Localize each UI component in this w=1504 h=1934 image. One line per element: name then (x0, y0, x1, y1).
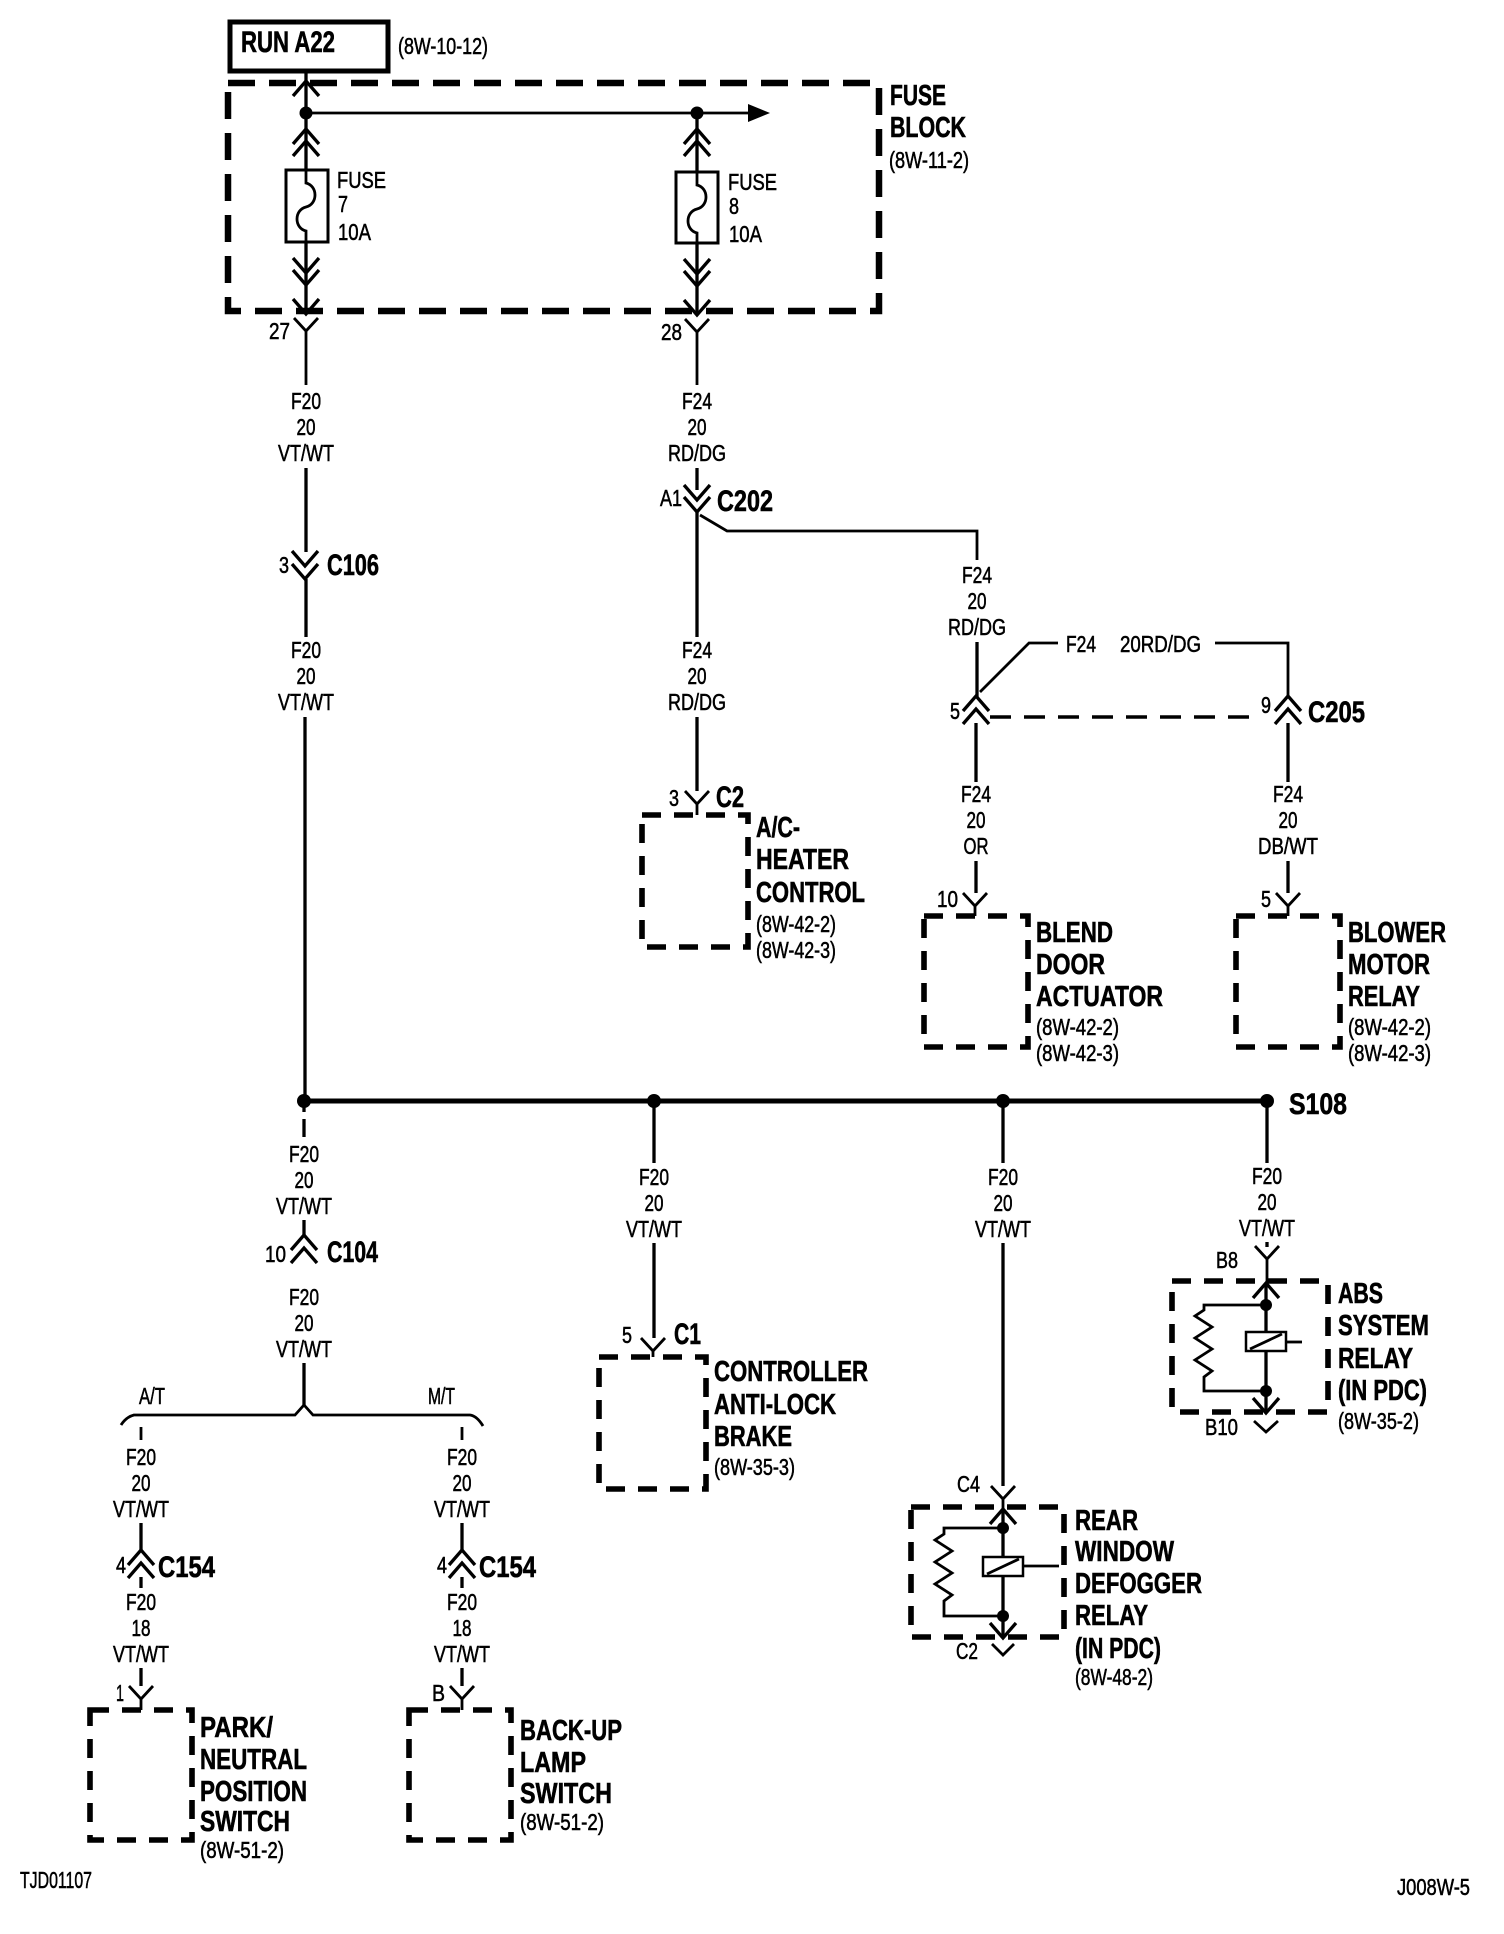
rear window defogger relay box (911, 1507, 1064, 1637)
svg-text:(8W-51-2): (8W-51-2) (520, 1809, 604, 1835)
wire label F20 20 VT/WT (1239, 1163, 1295, 1241)
svg-text:C205: C205 (1308, 696, 1365, 729)
chevron out of relay box (990, 1623, 1016, 1638)
relay coil of defogger relay (983, 1557, 1059, 1576)
svg-text:C2: C2 (716, 781, 744, 814)
svg-text:RELAY: RELAY (1338, 1343, 1413, 1375)
svg-text:F20: F20 (1252, 1163, 1282, 1189)
chevron at fuse block exit 28 (684, 300, 710, 315)
branch 3 wire (1001, 1101, 1004, 1163)
svg-text:CONTROL: CONTROL (756, 877, 865, 909)
wire (1001, 1576, 1004, 1637)
resistor of ABS relay (1195, 1305, 1266, 1391)
svg-text:F20: F20 (447, 1444, 477, 1470)
wire (1286, 861, 1289, 893)
svg-text:VT/WT: VT/WT (113, 1641, 169, 1667)
branch 2 wire (652, 1101, 655, 1163)
svg-text:C4: C4 (957, 1471, 980, 1497)
connector C205 pin 9 (1261, 692, 1365, 729)
wire (460, 1668, 463, 1686)
wire (302, 1220, 305, 1237)
wire label F20 20 VT/WT (626, 1164, 682, 1242)
wire (974, 861, 977, 893)
svg-text:TJD01107: TJD01107 (20, 1867, 92, 1893)
A/C-heater control box (642, 812, 865, 963)
wire down to splice bus (303, 717, 306, 1101)
label FUSE BLOCK (889, 80, 969, 173)
svg-text:C1: C1 (674, 1318, 701, 1351)
wire (975, 642, 978, 697)
A/T wire label F20 20 VT/WT (113, 1444, 169, 1522)
svg-text:20: 20 (453, 1470, 472, 1496)
svg-text:VT/WT: VT/WT (276, 1193, 332, 1219)
svg-text:BLEND: BLEND (1036, 917, 1113, 949)
svg-text:(8W-42-3): (8W-42-3) (1036, 1040, 1119, 1066)
svg-text:J008W-5: J008W-5 (1397, 1874, 1470, 1900)
svg-text:RD/DG: RD/DG (668, 440, 726, 466)
svg-text:VT/WT: VT/WT (434, 1496, 490, 1522)
svg-text:(8W-35-3): (8W-35-3) (714, 1454, 795, 1480)
svg-text:RELAY: RELAY (1075, 1600, 1148, 1632)
wire label F20 20 VT/WT (278, 388, 334, 466)
svg-text:20: 20 (295, 1167, 314, 1193)
pin C2 of defogger relay (956, 1638, 1014, 1664)
junction dot (997, 1522, 1009, 1534)
svg-text:VT/WT: VT/WT (434, 1641, 490, 1667)
svg-text:20: 20 (968, 588, 987, 614)
svg-text:F20: F20 (291, 388, 321, 414)
svg-text:VT/WT: VT/WT (276, 1336, 332, 1362)
svg-text:C154: C154 (479, 1551, 536, 1584)
svg-text:F20: F20 (639, 1164, 669, 1190)
svg-text:9: 9 (1261, 692, 1271, 718)
ABS system relay box (1172, 1281, 1328, 1412)
wire label F20 20 VT/WT (278, 637, 334, 715)
svg-text:C106: C106 (327, 549, 379, 582)
svg-text:VT/WT: VT/WT (278, 440, 334, 466)
svg-text:5: 5 (950, 698, 960, 724)
C205 interface dashed (990, 715, 1253, 719)
wire label F24 20 RD/DG (branch) (948, 562, 1006, 640)
wire below fuse 8 (695, 243, 698, 313)
connector C154 pin 4 (A/T) (116, 1550, 215, 1584)
svg-text:20: 20 (297, 663, 316, 689)
svg-text:10A: 10A (729, 221, 763, 247)
wire label F24 20 DB/WT (1258, 781, 1318, 859)
svg-text:5: 5 (622, 1322, 632, 1348)
svg-text:(IN PDC): (IN PDC) (1338, 1375, 1427, 1407)
svg-text:20: 20 (688, 663, 707, 689)
svg-text:F24: F24 (682, 388, 712, 414)
svg-text:HEATER: HEATER (756, 844, 849, 876)
svg-text:FUSE: FUSE (728, 169, 777, 195)
svg-text:(8W-51-2): (8W-51-2) (200, 1837, 284, 1863)
chevron into ABS box (1253, 1283, 1279, 1298)
svg-text:VT/WT: VT/WT (278, 689, 334, 715)
connector chevrons below fuse 8 (684, 259, 710, 274)
connector chevrons above fuse 7 (293, 129, 319, 144)
junction dot (1260, 1299, 1272, 1311)
svg-text:ACTUATOR: ACTUATOR (1036, 981, 1163, 1013)
pin 28 (661, 319, 709, 385)
wire (302, 1363, 305, 1405)
svg-text:28: 28 (661, 319, 682, 345)
connector chevrons below fuse 7 (293, 258, 319, 273)
resistor of defogger relay (935, 1528, 1003, 1616)
svg-text:20: 20 (994, 1190, 1013, 1216)
wire label F20 20 VT/WT (975, 1164, 1031, 1242)
svg-text:RD/DG: RD/DG (668, 689, 726, 715)
svg-text:F20: F20 (126, 1589, 156, 1615)
wire to fuse 8 with arrow (306, 104, 770, 122)
svg-text:FUSE: FUSE (337, 167, 386, 193)
connector chevrons above fuse 8 (684, 129, 710, 144)
wire (974, 723, 977, 782)
svg-text:OR: OR (964, 833, 989, 859)
svg-text:PARK/: PARK/ (200, 1712, 273, 1744)
pin B8 of ABS relay (1216, 1246, 1279, 1284)
wire (460, 1577, 463, 1588)
svg-text:(8W-35-2): (8W-35-2) (1338, 1408, 1419, 1434)
svg-text:WINDOW: WINDOW (1075, 1536, 1174, 1568)
svg-text:F20: F20 (289, 1284, 319, 1310)
svg-text:18: 18 (453, 1615, 472, 1641)
svg-text:A1: A1 (660, 485, 682, 511)
svg-text:(8W-48-2): (8W-48-2) (1075, 1664, 1153, 1690)
svg-text:ABS: ABS (1338, 1278, 1383, 1310)
svg-text:C104: C104 (327, 1236, 378, 1269)
wire (139, 1523, 142, 1551)
svg-text:BLOWER: BLOWER (1348, 917, 1446, 949)
svg-text:B: B (432, 1680, 445, 1706)
wire (1265, 1242, 1268, 1247)
svg-text:ANTI-LOCK: ANTI-LOCK (714, 1389, 836, 1421)
wire (695, 468, 698, 490)
svg-text:20: 20 (967, 807, 986, 833)
wire (1264, 1284, 1267, 1332)
junction dot at fuse 8 (691, 107, 704, 120)
svg-text:VT/WT: VT/WT (113, 1496, 169, 1522)
svg-text:4: 4 (116, 1552, 126, 1578)
chevron at fuse block exit 27 (293, 299, 319, 314)
svg-text:1: 1 (116, 1680, 124, 1706)
chevron into relay box (990, 1509, 1016, 1524)
splice bus S108 (297, 1088, 1347, 1121)
svg-text:8: 8 (729, 193, 739, 219)
svg-text:F24: F24 (1066, 631, 1096, 657)
pin B of back-up lamp switch (432, 1680, 474, 1710)
wire junction to fuse 8 (695, 113, 698, 172)
wire (695, 717, 698, 791)
svg-text:VT/WT: VT/WT (975, 1216, 1031, 1242)
labels ABS system relay (1338, 1278, 1429, 1434)
svg-text:3: 3 (279, 552, 289, 578)
svg-text:F24: F24 (962, 562, 992, 588)
blend door actuator box (924, 916, 1163, 1066)
wire label F24 20 RD/DG (668, 388, 726, 466)
svg-text:RUN A22: RUN A22 (241, 26, 335, 59)
park/neutral position switch box (90, 1710, 307, 1863)
wire (139, 1668, 142, 1686)
svg-text:BRAKE: BRAKE (714, 1421, 792, 1453)
svg-text:FUSE: FUSE (890, 80, 946, 112)
branch 1 wire (302, 1101, 305, 1112)
svg-text:(IN PDC): (IN PDC) (1075, 1633, 1161, 1665)
leader line with wire label F24 20RD/DG (980, 631, 1288, 697)
pin C4 of defogger relay (957, 1471, 1015, 1510)
svg-text:(8W-42-2): (8W-42-2) (1036, 1014, 1119, 1040)
svg-text:VT/WT: VT/WT (626, 1216, 682, 1242)
svg-text:C2: C2 (956, 1638, 978, 1664)
svg-text:BACK-UP: BACK-UP (520, 1715, 622, 1747)
A/T M/T split (121, 1383, 483, 1440)
svg-text:B10: B10 (1205, 1414, 1238, 1440)
svg-text:A/C-: A/C- (756, 812, 800, 844)
svg-text:C202: C202 (717, 485, 773, 518)
svg-text:DOOR: DOOR (1036, 949, 1105, 981)
svg-text:RELAY: RELAY (1348, 981, 1420, 1013)
svg-text:DEFOGGER: DEFOGGER (1075, 1568, 1202, 1600)
wire label F20 18 VT/WT (113, 1589, 169, 1667)
wire (1001, 1510, 1004, 1557)
wire (460, 1523, 463, 1551)
wire (304, 468, 307, 552)
svg-text:S108: S108 (1289, 1088, 1347, 1121)
svg-text:(8W-11-2): (8W-11-2) (889, 147, 969, 173)
svg-text:A/T: A/T (139, 1383, 165, 1409)
svg-text:M/T: M/T (428, 1383, 455, 1409)
svg-text:20: 20 (1279, 807, 1298, 833)
svg-text:10: 10 (265, 1241, 286, 1267)
wire from C205 pin 9 (1286, 723, 1289, 782)
chevron at fuse block entry (293, 81, 319, 96)
pin 1 of park/neutral position switch (116, 1680, 153, 1710)
branch 4 wire (1265, 1101, 1268, 1163)
svg-text:(8W-42-3): (8W-42-3) (1348, 1040, 1431, 1066)
svg-text:NEUTRAL: NEUTRAL (200, 1744, 307, 1776)
junction dot (1260, 1385, 1272, 1397)
svg-text:SWITCH: SWITCH (520, 1778, 612, 1810)
svg-text:F20: F20 (988, 1164, 1018, 1190)
wire (139, 1577, 142, 1588)
svg-text:F20: F20 (289, 1141, 319, 1167)
wire RUN A22 into fuse block (304, 71, 307, 170)
relay coil of ABS relay (1246, 1332, 1302, 1351)
fuse block boundary (228, 83, 879, 311)
wire (1264, 1351, 1267, 1412)
svg-text:SYSTEM: SYSTEM (1338, 1310, 1429, 1342)
svg-text:POSITION: POSITION (200, 1776, 307, 1808)
wire (1001, 1243, 1004, 1486)
svg-text:MOTOR: MOTOR (1348, 949, 1430, 981)
chevron out of ABS box (1253, 1398, 1279, 1413)
svg-text:B8: B8 (1216, 1247, 1238, 1273)
connector C205 pin 5 (950, 696, 989, 724)
wire down to A/C heater control (695, 512, 698, 637)
svg-text:20: 20 (688, 414, 707, 440)
svg-text:F20: F20 (291, 637, 321, 663)
svg-text:7: 7 (338, 191, 348, 217)
svg-text:F20: F20 (447, 1589, 477, 1615)
svg-text:10: 10 (937, 886, 958, 912)
connector C202 pin A1 (660, 485, 773, 518)
svg-text:F24: F24 (1273, 781, 1303, 807)
svg-text:C154: C154 (158, 1551, 215, 1584)
svg-text:20: 20 (295, 1310, 314, 1336)
wire below fuse 7 (304, 242, 307, 313)
svg-text:RD/DG: RD/DG (948, 614, 1006, 640)
svg-text:F20: F20 (126, 1444, 156, 1470)
connector C104 pin 10 (265, 1235, 378, 1269)
svg-text:27: 27 (269, 318, 290, 344)
svg-text:SWITCH: SWITCH (200, 1806, 290, 1838)
svg-text:F24: F24 (961, 781, 991, 807)
pin 27 (269, 318, 318, 385)
wire (652, 1243, 655, 1338)
svg-text:BLOCK: BLOCK (890, 112, 966, 144)
svg-text:(8W-42-2): (8W-42-2) (756, 911, 836, 937)
junction dot (997, 1610, 1009, 1622)
wire label F24 20 RD/DG (668, 637, 726, 715)
svg-text:18: 18 (132, 1615, 151, 1641)
svg-text:20RD/DG: 20RD/DG (1120, 631, 1201, 657)
svg-text:DB/WT: DB/WT (1258, 833, 1318, 859)
pin B10 of ABS relay (1205, 1414, 1278, 1440)
pin 3 of C2 (669, 781, 744, 815)
fuse F8 10A (676, 169, 777, 247)
wire branch from C202 to right (700, 515, 977, 560)
labels rear window defogger relay (1075, 1505, 1202, 1690)
svg-text:20: 20 (645, 1190, 664, 1216)
wire label F24 20 OR (961, 781, 991, 859)
wire (304, 579, 307, 637)
svg-text:20: 20 (1258, 1189, 1277, 1215)
svg-text:20: 20 (297, 414, 316, 440)
pin 5 of C1 (622, 1318, 701, 1357)
svg-text:F24: F24 (682, 637, 712, 663)
svg-text:CONTROLLER: CONTROLLER (714, 1356, 868, 1388)
svg-text:REAR: REAR (1075, 1505, 1138, 1537)
wire label F20 20 VT/WT (276, 1284, 332, 1362)
connector C154 pin 4 (M/T) (437, 1550, 536, 1584)
junction dot (300, 107, 313, 120)
back-up lamp switch box (409, 1710, 622, 1840)
svg-text:VT/WT: VT/WT (1239, 1215, 1295, 1241)
pin 5 of blower motor relay (1261, 886, 1300, 916)
svg-text:(8W-42-2): (8W-42-2) (1348, 1014, 1431, 1040)
svg-text:(8W-42-3): (8W-42-3) (756, 937, 836, 963)
controller anti-lock brake box (599, 1356, 868, 1489)
svg-text:3: 3 (669, 785, 679, 811)
svg-text:20: 20 (132, 1470, 151, 1496)
svg-text:(8W-10-12): (8W-10-12) (398, 33, 488, 59)
svg-text:10A: 10A (338, 219, 372, 245)
fuse F7 10A (286, 167, 386, 245)
node RUN A22 (230, 22, 388, 71)
M/T wire label F20 20 VT/WT (434, 1444, 490, 1522)
svg-text:5: 5 (1261, 886, 1271, 912)
connector C106 pin 3 (279, 549, 379, 582)
pin 10 of blend door actuator (937, 886, 987, 916)
svg-text:4: 4 (437, 1552, 447, 1578)
svg-text:LAMP: LAMP (520, 1747, 586, 1779)
blower motor relay box (1236, 916, 1446, 1066)
wire label F20 18 VT/WT (434, 1589, 490, 1667)
wire label F20 20 VT/WT (276, 1141, 332, 1219)
